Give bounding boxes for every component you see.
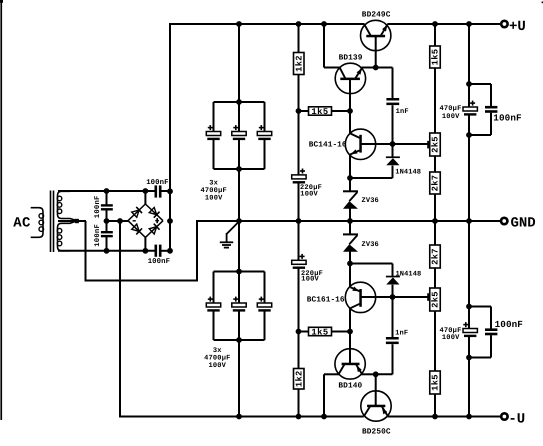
resistor 2k7 upper [430, 172, 441, 194]
svg-text:100nF: 100nF [146, 179, 168, 187]
svg-text:100V: 100V [301, 276, 319, 284]
label 100nF upper-left rotated [94, 195, 102, 218]
transistor BD250C [361, 391, 391, 421]
capacitor 100nF output upper [485, 106, 497, 113]
label BC141-16 [309, 140, 347, 149]
label BD249C [362, 11, 391, 20]
resistor 2k7 lower [430, 245, 441, 268]
svg-text:100V: 100V [205, 195, 223, 203]
bridge rectifier B1 [128, 204, 163, 237]
wire AC top row [58, 190, 170, 192]
svg-text:1k5: 1k5 [311, 107, 328, 117]
diode 1N4148 upper [386, 156, 400, 165]
label upper bank 3x [209, 180, 218, 188]
label 220uF upper [300, 184, 322, 192]
capacitor 100nF output lower [485, 328, 497, 335]
svg-text:100nF: 100nF [94, 195, 102, 218]
wire bridge bottom stub [144, 237, 146, 251]
svg-text:1k5: 1k5 [431, 374, 441, 391]
svg-text:ZV36: ZV36 [362, 197, 379, 205]
label 470uF upper voltage [442, 113, 460, 121]
svg-text:2k7: 2k7 [431, 248, 441, 265]
label 100nF bottom-right [148, 258, 170, 266]
capacitor 470uF lower [463, 322, 477, 337]
bridge minus polarity mark [133, 220, 136, 221]
svg-text:AC: AC [13, 216, 31, 232]
zener ZV36 upper [343, 190, 358, 208]
wire -U rail left segment [120, 416, 364, 418]
wire bridge plus riser x=170 [169, 23, 171, 251]
resistor 1k5 right lower [430, 371, 441, 394]
svg-text:1N4148: 1N4148 [395, 168, 421, 176]
label 100nF top-right [146, 179, 168, 187]
terminal +U [501, 21, 507, 27]
capacitor 4700uF lower b [232, 297, 246, 312]
svg-text:100V: 100V [442, 334, 460, 342]
resistor 1k5 upper horizontal [309, 107, 332, 117]
transistor BC161-16 [345, 282, 392, 312]
svg-text:BC141-16: BC141-16 [309, 140, 347, 149]
svg-text:100nF: 100nF [148, 258, 170, 266]
wire column x=298.5 segments [298, 24, 300, 417]
scan mark top-right corner [542, 2, 543, 4]
label ZV36 lower [362, 241, 379, 249]
terminal -U [501, 413, 507, 419]
svg-text:2k5: 2k5 [431, 136, 441, 153]
capacitor 220uF lower [292, 254, 306, 269]
wire column x=435 segments [434, 24, 436, 417]
svg-text:1k2: 1k2 [294, 370, 304, 387]
label 100nF lower-left rotated [94, 224, 102, 247]
svg-text:1N4148: 1N4148 [396, 270, 422, 278]
label BC161-16 [307, 296, 345, 305]
wire BD140 collector feed [324, 374, 339, 416]
label 220uF lower voltage [301, 276, 319, 284]
capacitor 100nF lower-left [101, 231, 113, 237]
svg-text:100V: 100V [208, 362, 226, 370]
wire mid row bridge minus [107, 220, 129, 222]
label BD250C [362, 427, 391, 436]
svg-text:1nF: 1nF [396, 108, 409, 116]
label 470uF lower voltage [442, 334, 460, 342]
svg-text:100nF: 100nF [495, 319, 524, 330]
capacitor 100nF top-right [155, 185, 162, 197]
wire column x=392.5 upper [349, 68, 393, 179]
resistor 1k2 upper [294, 53, 305, 75]
label 1N4148 upper [395, 168, 421, 176]
label +U [509, 19, 526, 35]
label -U [508, 411, 525, 427]
svg-text:BD249C: BD249C [362, 11, 391, 20]
svg-text:BD140: BD140 [338, 381, 362, 390]
wire column x=350 segments [349, 80, 351, 363]
svg-text:BD250C: BD250C [362, 427, 391, 436]
capacitor 4700uF lower a [206, 297, 220, 312]
svg-text:1k5: 1k5 [311, 328, 328, 338]
wire lower cap bank brackets [214, 272, 265, 341]
label 220uF upper voltage [300, 190, 318, 198]
label GND [511, 215, 536, 231]
svg-text:1k5: 1k5 [431, 49, 441, 66]
wire AC bottom row [58, 250, 170, 252]
wire 1k5 lower leads [299, 331, 351, 333]
transformer primary winding [31, 208, 44, 238]
resistor 1k5 lower horizontal [309, 327, 332, 337]
wire BD139 collector feed [324, 24, 340, 68]
label upper bank 100V [205, 195, 223, 203]
wire snubber column x=106.5 [106, 191, 108, 251]
wire column x=469 segments [468, 24, 470, 417]
wire 1k5 upper leads [299, 110, 351, 112]
ground symbol [220, 222, 239, 248]
transformer core [51, 191, 54, 253]
label 1nF lower [395, 330, 408, 338]
transistor BD139 [335, 63, 376, 93]
wire GND drop x=197 [196, 221, 198, 281]
svg-text:BC161-16: BC161-16 [307, 296, 345, 305]
capacitor 100nF bottom-right [155, 245, 162, 257]
wire top +U rail right segment [387, 23, 501, 25]
svg-text:2k5: 2k5 [431, 291, 441, 308]
capacitor 4700uF upper b [232, 125, 246, 140]
svg-text:100nF: 100nF [493, 113, 522, 124]
resistor 1k2 lower [294, 369, 305, 390]
node center tap junction [75, 219, 79, 223]
transistor BD249C [361, 20, 391, 67]
svg-text:1k2: 1k2 [294, 55, 304, 72]
scan border left edge [0, 0, 3, 420]
label lower bank 100V [208, 362, 226, 370]
svg-text:100V: 100V [300, 190, 318, 198]
capacitor 4700uF upper c [257, 125, 271, 140]
label 1N4148 lower [396, 270, 422, 278]
terminal GND [501, 218, 507, 224]
transistor BD140 [335, 349, 376, 379]
capacitor 100nF upper-left [101, 204, 113, 210]
svg-text:+U: +U [509, 19, 526, 35]
svg-text:GND: GND [511, 215, 536, 231]
capacitor 4700uF lower c [257, 297, 271, 312]
wire column x=392.5 lower [350, 264, 428, 406]
label lower bank 4700uF [204, 355, 230, 363]
label AC [13, 216, 31, 232]
wire -U rail right segment [388, 416, 501, 418]
wire GND rail [196, 220, 501, 222]
svg-text:-U: -U [508, 411, 525, 427]
wire center-tap drop x=85.5 [85, 221, 87, 282]
capacitor 470uF upper [463, 101, 477, 116]
capacitor 220uF upper [292, 169, 306, 184]
transformer secondary top winding [57, 191, 77, 220]
wire 100nF lower branch [469, 307, 491, 358]
wire upper cap bank brackets [214, 102, 265, 169]
capacitor 1nF upper [386, 98, 399, 105]
label upper bank 4700uF [200, 187, 226, 195]
label 220uF lower [301, 270, 323, 278]
label BD139 [339, 53, 363, 62]
bridge plus polarity mark [155, 218, 159, 223]
label 470uF upper [439, 105, 461, 113]
wire top +U rail left segment [170, 23, 365, 25]
wire bridge top stub [144, 191, 146, 205]
zener ZV36 lower [343, 233, 358, 251]
label BD140 [338, 381, 362, 390]
capacitor 4700uF upper a [206, 125, 220, 140]
wire bridge minus riser x=120 [119, 221, 121, 418]
svg-text:ZV36: ZV36 [362, 241, 379, 249]
svg-text:2k7: 2k7 [431, 175, 441, 192]
trimmer 2k5 lower [427, 288, 440, 311]
trimmer 2k5 upper [427, 133, 440, 156]
transistor BC141-16 [345, 129, 392, 159]
wire 100nF upper branch [469, 84, 491, 135]
transformer secondary bottom winding [57, 221, 77, 251]
wire wiper upper [393, 143, 429, 145]
label 470uF lower [439, 327, 461, 335]
svg-text:100nF: 100nF [94, 224, 102, 247]
label 100nF output upper [493, 113, 522, 124]
resistor 1k5 right upper [430, 46, 441, 68]
wire GND return horizontal y=280.5 [85, 280, 199, 282]
capacitor 1nF lower [386, 337, 399, 344]
wire upper cap bank column x=239 [238, 24, 240, 417]
label ZV36 upper [362, 197, 379, 205]
svg-text:100V: 100V [442, 113, 460, 121]
wire center tap lead [58, 220, 86, 222]
diode 1N4148 lower [386, 276, 400, 285]
svg-text:1nF: 1nF [395, 330, 408, 338]
label 100nF output lower [495, 319, 524, 330]
label 1nF upper [396, 108, 409, 116]
svg-text:BD139: BD139 [339, 53, 363, 62]
label lower bank 3x [213, 347, 222, 355]
